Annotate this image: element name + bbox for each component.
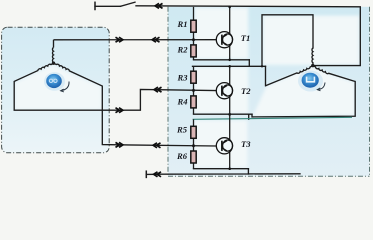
svg-text:T2: T2 [241, 86, 251, 96]
svg-text:R6: R6 [176, 151, 188, 161]
svg-text:T1: T1 [241, 33, 251, 43]
svg-text:R1: R1 [177, 19, 188, 29]
svg-text:R3: R3 [177, 72, 189, 82]
svg-text:R5: R5 [176, 124, 188, 134]
svg-text:T3: T3 [241, 139, 251, 149]
svg-text:R2: R2 [177, 44, 189, 54]
svg-text:R4: R4 [177, 97, 189, 107]
